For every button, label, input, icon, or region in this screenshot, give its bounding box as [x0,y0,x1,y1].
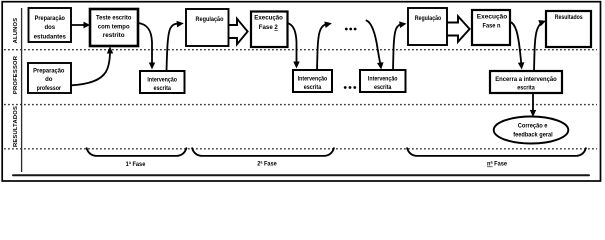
lane separator dashed line 1 (ALUNOS/PROFESSOR) [4,49,597,51]
curve arrow: Execução Fase n down to Encerra box [511,22,525,70]
svg-text:do: do [45,77,53,83]
box: Preparação dos estudantes [29,8,72,42]
ellipsis dots ALUNOS lane [345,28,357,31]
brace: nª Fase [407,148,586,167]
svg-text:Regulação: Regulação [415,16,442,22]
svg-text:dos: dos [44,25,55,31]
svg-text:Intervenção: Intervenção [147,77,177,83]
svg-text:Fase 2: Fase 2 [259,25,279,31]
svg-text:Fase n: Fase n [483,23,501,29]
svg-text:com tempo: com tempo [98,25,130,31]
box: Execução Fase n [472,10,510,45]
block arrow: Regulação 1 to Execução Fase 2 [228,19,248,45]
curve arrow: Intervenção escrita 1 up to Regulação 1 [167,20,185,71]
svg-text:professor: professor [37,86,62,92]
svg-text:Preparação: Preparação [35,16,66,22]
vertical axis line [21,8,23,172]
box: Regulação 1 [186,9,229,46]
curve arrow: Intervenção escrita 3 up to Regulação 2 [393,20,407,70]
lane separator dashed line 3 (bottom of RESULTADOS) [4,148,597,150]
svg-text:Teste escrito: Teste escrito [96,16,132,22]
heavy bottom timeline [13,174,589,176]
box: Encerra a intervenção escrita [490,71,562,93]
svg-text:escrita: escrita [153,86,171,92]
svg-text:Preparação: Preparação [33,69,65,75]
box: Intervenção escrita 1 [140,71,185,93]
svg-text:escrita: escrita [374,85,392,91]
svg-text:Intervenção: Intervenção [298,76,328,82]
brace: 2ª Fase [192,148,334,167]
outer frame [2,2,600,181]
curve arrow: ellipsis down to Intervenção escrita 3 [367,21,385,70]
svg-text:PROFESSOR: PROFESSOR [13,55,19,94]
svg-text:Correção e: Correção e [518,124,548,130]
curve arrow: Teste escrito down to Intervenção escrita 1 [138,23,155,70]
arrow: Encerra box down to ellipse [530,94,536,118]
svg-text:Intervenção: Intervenção [368,76,398,82]
ellipsis dots PROFESSOR lane [344,86,356,89]
svg-text:2ª Fase: 2ª Fase [257,161,277,168]
svg-text:Execução: Execução [254,16,283,22]
curve arrow: Encerra box up to Resultados [534,18,547,71]
box: Resultados [546,11,591,47]
svg-text:Encerra a intervenção: Encerra a intervenção [495,77,557,83]
ellipse: Correção e feedback geral [494,117,569,144]
svg-text:1ª Fase: 1ª Fase [126,161,146,168]
lane separator dashed line 2 (PROFESSOR/RESULTADOS) [4,104,597,106]
box: Intervenção escrita 3 [360,70,406,92]
svg-text:RESULTADOS: RESULTADOS [13,106,19,147]
arrow: Preparação dos estudantes to Teste escrito [71,22,90,29]
box: Preparação do professor [28,63,71,93]
svg-text:Execução: Execução [477,15,508,21]
box: Execução Fase 2 [251,12,288,48]
svg-text:escrita: escrita [304,85,322,91]
brace: 1ª Fase [87,148,187,168]
svg-text:estudantes: estudantes [34,34,67,40]
svg-text:nª Fase: nª Fase [487,161,508,168]
curve arrow: Preparação do professor to bottom of Teste escrito [72,47,114,86]
block arrow: Regulação 2 to Execução Fase n [447,16,470,42]
svg-text:ALUNOS: ALUNOS [13,18,19,44]
svg-text:Resultados: Resultados [555,15,583,21]
svg-text:Regulação: Regulação [196,17,224,23]
box: Teste escrito com tempo restrito [90,9,138,46]
box: Intervenção escrita 2 [293,70,332,92]
svg-text:escrita: escrita [517,85,535,91]
box: Regulação 2 [408,8,447,45]
curve arrow: Intervenção escrita 2 up toward ellipsis [317,20,333,70]
svg-text:restrito: restrito [103,33,125,39]
svg-text:feedback geral: feedback geral [513,133,553,139]
curve arrow: Execução Fase 2 down to Intervenção escrita 2 [288,23,300,69]
